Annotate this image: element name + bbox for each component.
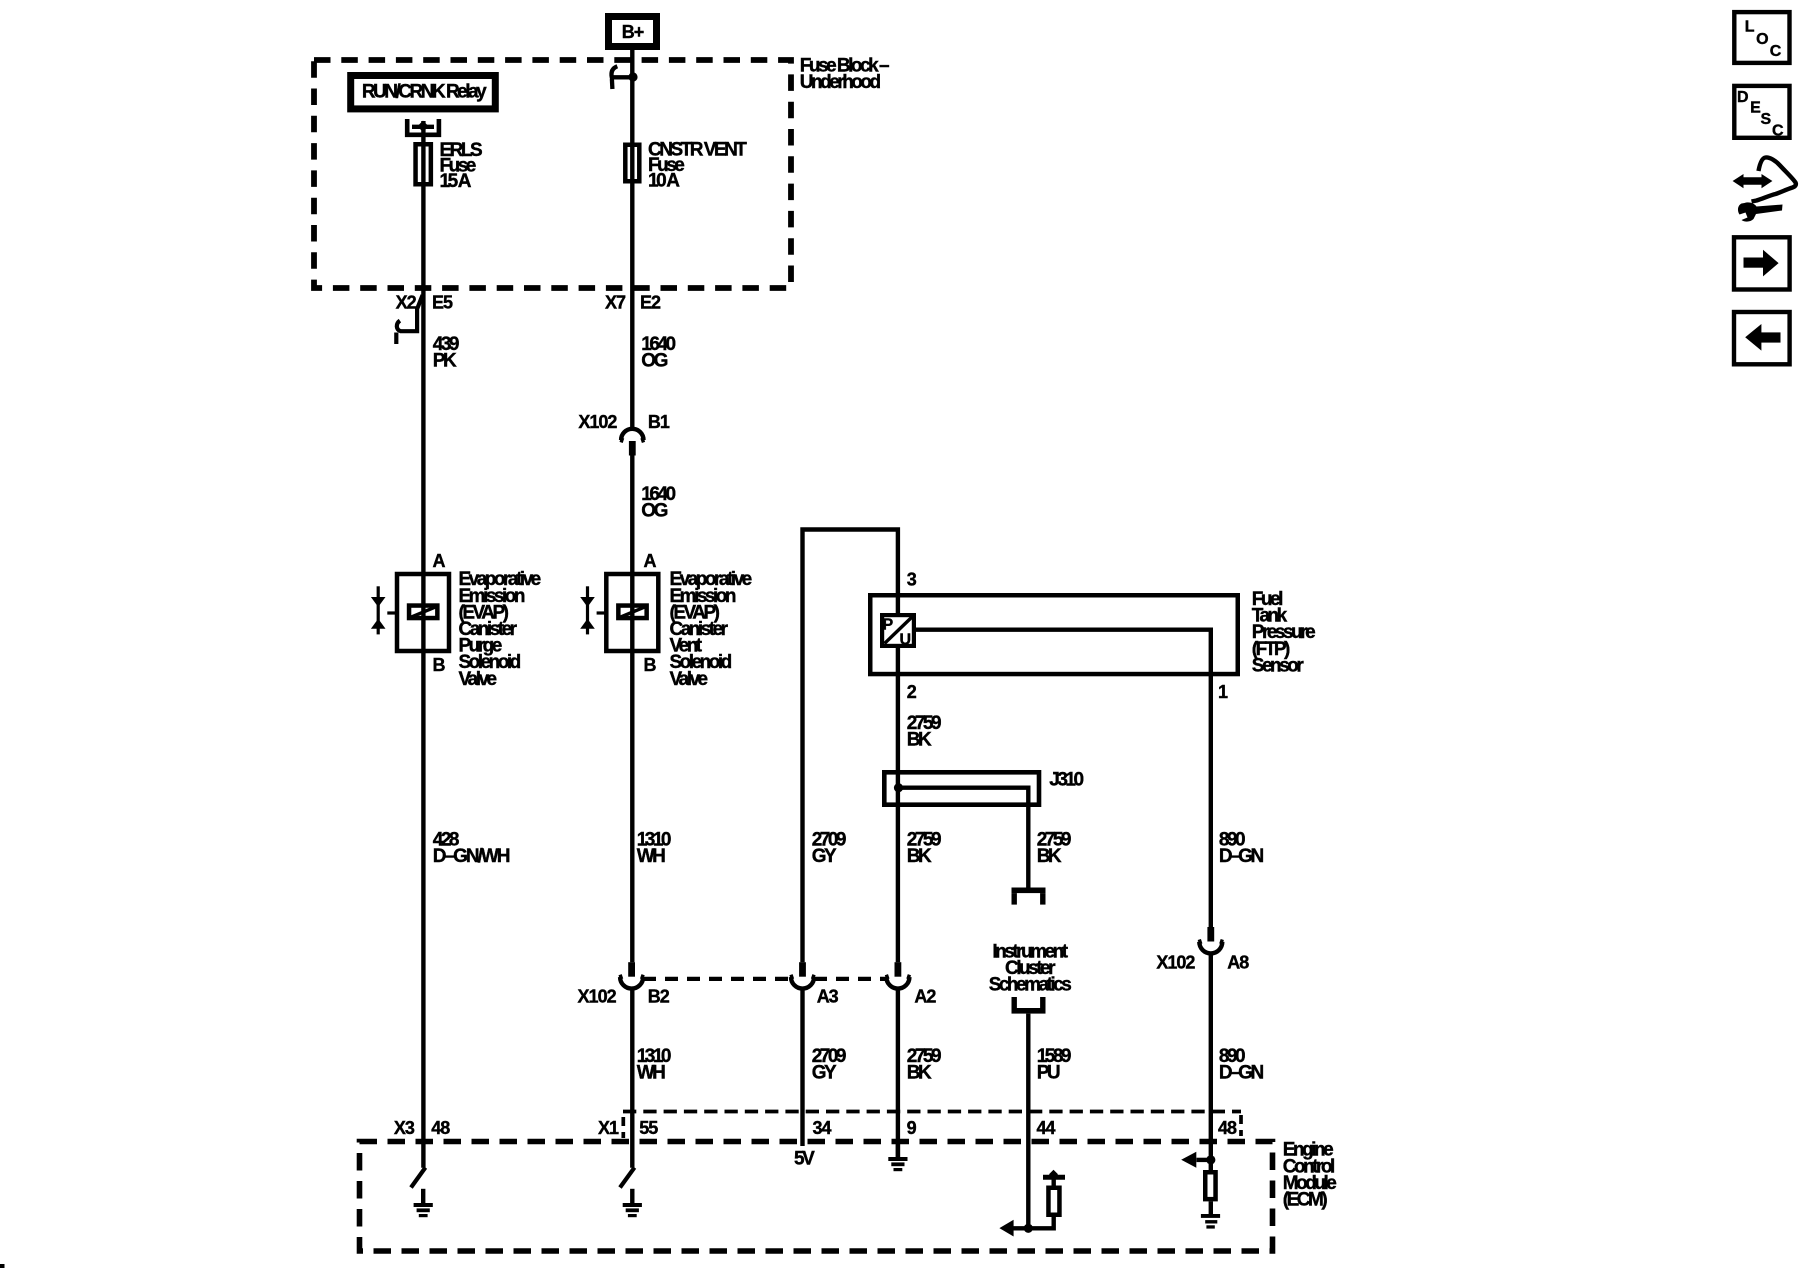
solenoid EVAP canister vent valve — [606, 574, 658, 651]
svg-text:E5: E5 — [432, 293, 453, 313]
resistor (ECM pin 48 pull-down) — [1205, 1172, 1215, 1199]
svg-text:U: U — [900, 632, 911, 649]
ECM pin 44 internal: output arrow left — [1010, 1226, 1028, 1230]
svg-text:2: 2 — [907, 682, 917, 702]
svg-text:D–GN/WH: D–GN/WH — [433, 846, 510, 867]
wire 2759 BK (X102 to ECM pin 9) — [896, 989, 900, 1157]
wire 2759 BK through J310 to X102 A2 — [896, 770, 900, 962]
inline connector X102 pin A2 — [895, 962, 902, 977]
svg-text:BK: BK — [907, 1063, 932, 1084]
svg-text:E: E — [1750, 99, 1761, 116]
ECM pin 48 internal: output arrow left — [1197, 1158, 1211, 1162]
svg-text:D: D — [1737, 89, 1749, 106]
svg-text:S: S — [1761, 111, 1772, 128]
pressure transducer P/U symbol — [882, 615, 914, 646]
svg-text:A8: A8 — [1227, 952, 1249, 972]
svg-text:PK: PK — [433, 350, 457, 371]
splice pack J310 (box) — [884, 772, 1039, 804]
icon forward arrow box — [1734, 237, 1790, 289]
svg-text:B: B — [433, 655, 446, 675]
svg-text:X102: X102 — [578, 987, 617, 1007]
svg-text:1: 1 — [1218, 682, 1228, 702]
inline connector X102 pin B2 — [628, 962, 635, 977]
svg-text:WH: WH — [637, 1063, 665, 1084]
svg-text:D–GN: D–GN — [1219, 846, 1264, 867]
inline connector X102 pin A3 — [799, 962, 806, 977]
wire 1640 OG (X102 through EVAP vent valve to X102 B2) — [630, 456, 634, 963]
svg-text:X102: X102 — [578, 412, 617, 432]
connector X1 dashed line — [623, 1110, 1241, 1114]
svg-text:C: C — [1772, 122, 1784, 139]
svg-text:A3: A3 — [817, 987, 839, 1007]
ECM pin 44 internal: junction dot — [1024, 1224, 1033, 1233]
svg-text:WH: WH — [637, 846, 665, 867]
ground (ECM pin 48) — [1209, 1201, 1213, 1214]
icon back arrow box — [1734, 312, 1790, 364]
inline connector X102 pin B1 — [621, 429, 643, 440]
wire 890 D-GN (X102 to ECM pin 48) — [1209, 953, 1213, 1170]
off-page connector from instrument cluster (bottom bracket) — [1012, 1008, 1046, 1014]
wire transducer output to FTP pin 1 (internal) — [916, 630, 1211, 676]
relay RUN/CRNK (label box) — [351, 76, 496, 109]
sensor fuel tank pressure FTP (box) — [870, 595, 1238, 674]
wire 2709 GY (X102 to ECM pin 34) — [800, 989, 804, 1146]
wire 1640 OG (fuse to X102) — [630, 50, 634, 429]
ECM pin 55 internal switch stroke — [620, 1168, 635, 1188]
inline connector X102 pin A8 — [1207, 927, 1214, 942]
resistor (ECM pin 44 pull-up) — [1048, 1188, 1059, 1215]
svg-text:C: C — [1770, 43, 1782, 60]
wire 890 D-GN (FTP pin 1 to X102 A8) — [1209, 676, 1213, 927]
svg-text:J310: J310 — [1049, 770, 1083, 791]
svg-text:PU: PU — [1037, 1063, 1060, 1084]
junction dot in J310 — [894, 783, 903, 792]
svg-text:X1: X1 — [598, 1118, 619, 1138]
svg-text:OG: OG — [641, 501, 667, 522]
svg-text:(ECM): (ECM) — [1283, 1190, 1328, 1211]
svg-text:OG: OG — [641, 350, 667, 371]
ground (ECM pin 9) — [896, 1143, 900, 1157]
svg-text:X2: X2 — [396, 293, 417, 313]
wire 2709 GY riser (FTP pin 3 loop) — [803, 530, 898, 963]
connector X102 dashed harness line — [643, 977, 791, 981]
svg-text:34: 34 — [813, 1118, 832, 1138]
junction dot at B+ stud — [628, 72, 637, 81]
relay output bracket — [407, 119, 439, 135]
svg-text:X7: X7 — [605, 293, 626, 313]
wire 2759 BK (FTP pin 2 to J310) — [896, 676, 900, 770]
page corner mark — [0, 1264, 5, 1268]
B+ stud terminal hook — [611, 66, 630, 77]
svg-text:BK: BK — [907, 729, 932, 750]
svg-text:O: O — [1756, 31, 1768, 48]
wire 1589 PU (instrument cluster to ECM pin 44) — [1026, 1014, 1030, 1229]
icon shop tools / double arrow — [1739, 177, 1766, 185]
wire 2759 BK (J310 to instrument cluster) — [1026, 807, 1030, 888]
svg-text:5V: 5V — [794, 1148, 815, 1169]
svg-text:A: A — [433, 551, 446, 571]
wire 1310 WH (X102 to ECM pin 55) — [630, 989, 634, 1168]
icon LOC box — [1734, 12, 1789, 63]
ECM pin 48(X3) internal switch stroke — [411, 1168, 425, 1188]
power feed terminal B+ (box) — [609, 17, 657, 47]
svg-text:9: 9 — [907, 1118, 917, 1138]
svg-text:15 A: 15 A — [440, 171, 472, 192]
off-page connector to instrument cluster (top bracket) — [1012, 888, 1046, 894]
svg-text:B2: B2 — [648, 987, 670, 1007]
svg-text:BK: BK — [907, 846, 932, 867]
ECM pin 44 internal: branch to pull-up resistor — [1028, 1217, 1053, 1228]
ECM pin 48 internal: junction dot — [1206, 1155, 1215, 1164]
svg-text:10 A: 10 A — [648, 171, 680, 192]
svg-text:RUN/CRNK Relay: RUN/CRNK Relay — [362, 81, 487, 102]
svg-text:Underhood: Underhood — [800, 72, 881, 93]
svg-text:B+: B+ — [622, 22, 644, 42]
svg-text:B: B — [644, 655, 657, 675]
svg-text:GY: GY — [812, 846, 837, 867]
terminal pigtail at X2-E5 — [400, 295, 423, 331]
wire FTP pin3 into transducer — [896, 593, 900, 613]
svg-text:X102: X102 — [1156, 952, 1195, 972]
svg-text:E2: E2 — [640, 293, 661, 313]
ground (ECM X3-48) — [421, 1189, 425, 1203]
svg-text:P: P — [883, 617, 894, 634]
svg-text:3: 3 — [907, 569, 917, 589]
wire transducer to FTP pin 2 — [896, 648, 900, 677]
svg-text:A2: A2 — [914, 987, 936, 1007]
svg-text:D–GN: D–GN — [1219, 1063, 1264, 1084]
svg-text:Sensor: Sensor — [1252, 655, 1305, 676]
svg-text:B1: B1 — [648, 412, 670, 432]
svg-text:48: 48 — [1218, 1118, 1237, 1138]
engine control module ECM (dashed box) — [360, 1142, 1273, 1252]
svg-text:Schematics: Schematics — [989, 975, 1072, 996]
wire 439 PK / 428 D-GN/WH (ERLS fuse through EVAP purge valve to ECM) — [421, 121, 425, 1168]
ground (ECM X1-55) — [630, 1189, 634, 1203]
svg-text:55: 55 — [639, 1118, 658, 1138]
icon DESC box — [1734, 86, 1789, 138]
svg-text:L: L — [1745, 18, 1755, 35]
svg-text:Valve: Valve — [459, 669, 497, 690]
svg-text:GY: GY — [812, 1063, 837, 1084]
fuse CNSTR VENT 10 A — [625, 145, 639, 182]
svg-text:BK: BK — [1037, 846, 1062, 867]
svg-text:X3: X3 — [394, 1118, 415, 1138]
svg-text:A: A — [644, 551, 657, 571]
svg-text:Valve: Valve — [670, 669, 708, 690]
ECM pin 44 internal: supply bar — [1051, 1180, 1055, 1186]
svg-text:48: 48 — [431, 1118, 450, 1138]
solenoid EVAP canister purge valve — [397, 574, 449, 651]
splice branch inside J310 — [899, 788, 1029, 807]
svg-text:44: 44 — [1037, 1118, 1056, 1138]
fuse block - underhood (dashed box) — [314, 60, 791, 288]
fuse ERLS 15 A — [416, 144, 431, 184]
